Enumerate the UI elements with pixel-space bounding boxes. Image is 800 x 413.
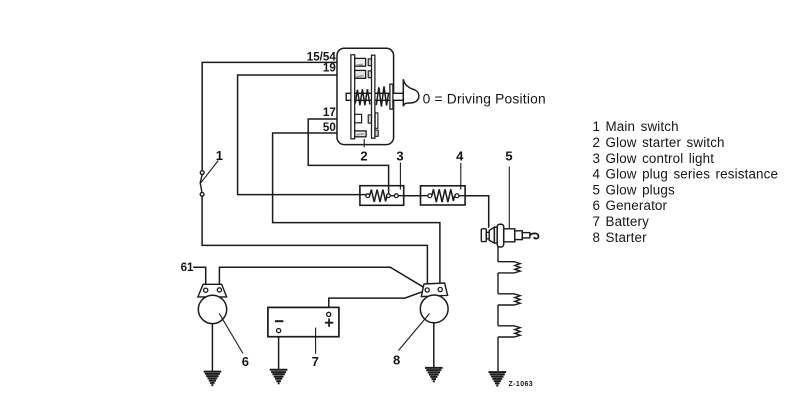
right bar contact b [368, 71, 371, 78]
svg-text:4: 4 [593, 167, 601, 182]
tick label 2 [363, 139, 365, 147]
wire 19 to glow control light [238, 75, 366, 195]
left contact bar [351, 55, 355, 139]
battery B 7 [268, 307, 339, 353]
svg-text:1: 1 [216, 148, 223, 163]
svg-text:Glow plugs: Glow plugs [606, 182, 675, 197]
glow plug heater elements chain [498, 247, 520, 371]
svg-text:1: 1 [593, 119, 601, 134]
wire battery plus to starter [329, 291, 426, 313]
spring retainer plate [390, 84, 393, 109]
wire generator to starter [219, 267, 426, 289]
wire 50 to starter right terminal [273, 133, 440, 286]
glow starter switch body [337, 48, 394, 144]
terminal 19 contact [355, 70, 366, 78]
svg-text:7: 7 [312, 354, 319, 369]
svg-text:17: 17 [323, 106, 336, 119]
wire 17 to control light junction [308, 119, 388, 193]
auxiliary bar [375, 113, 378, 128]
switch shaft [346, 93, 403, 100]
svg-text:8: 8 [593, 230, 601, 245]
ground starter [425, 368, 443, 382]
tick label 4 [460, 163, 462, 190]
wire generator to ground [211, 324, 213, 371]
wire series resistance to glow plug [465, 196, 489, 228]
svg-text:61: 61 [181, 261, 194, 274]
svg-text:8: 8 [393, 352, 400, 367]
terminal 50 contact [355, 131, 366, 137]
svg-text:Glow control light: Glow control light [606, 151, 715, 166]
svg-text:Battery: Battery [606, 214, 650, 229]
svg-text:6: 6 [242, 354, 249, 369]
ground generator [204, 372, 222, 386]
glow plug series resistance box 4 [421, 186, 466, 205]
spring left [355, 89, 370, 105]
svg-text:Generator: Generator [606, 198, 668, 213]
svg-text:50: 50 [323, 121, 336, 134]
ground glow plugs [489, 372, 507, 386]
svg-text:0 = Driving Position: 0 = Driving Position [423, 92, 546, 107]
wire battery minus to ground [278, 333, 280, 369]
glow control light box 3 [360, 186, 404, 206]
tick label 3 [399, 163, 401, 190]
right bar contact a [368, 59, 371, 66]
svg-text:5: 5 [505, 149, 512, 164]
svg-text:7: 7 [593, 214, 601, 229]
spring right [376, 86, 388, 106]
svg-text:4: 4 [456, 149, 464, 164]
svg-text:2: 2 [360, 148, 367, 163]
wire terminal 61 stub [193, 267, 206, 288]
switch knob [403, 79, 419, 106]
svg-text:Z-1063: Z-1063 [509, 381, 534, 388]
wire between control light and series resistance [404, 195, 421, 197]
generator G 6 [198, 284, 243, 353]
svg-text:5: 5 [593, 182, 601, 197]
svg-text:Starter: Starter [606, 230, 648, 245]
svg-text:Glow starter switch: Glow starter switch [606, 135, 725, 150]
svg-text:6: 6 [593, 198, 601, 213]
right bar contact d [375, 130, 378, 136]
svg-text:Main switch: Main switch [606, 119, 679, 134]
tick label 5 [508, 167, 510, 230]
svg-text:19: 19 [323, 62, 336, 75]
svg-text:Glow plug series resistance: Glow plug series resistance [606, 167, 779, 182]
terminal 15/54 contact [355, 58, 366, 66]
right contact bar [372, 55, 375, 138]
svg-text:2: 2 [593, 135, 601, 150]
svg-text:3: 3 [396, 149, 403, 164]
wire starter to ground [433, 323, 435, 367]
ground battery [270, 370, 288, 384]
right bar contact c [368, 115, 371, 123]
terminal 17 contact [355, 114, 362, 123]
main switch S1 [200, 161, 218, 197]
starter M 8 [399, 283, 449, 351]
wire main switch to starter left terminal [202, 196, 427, 286]
glow plug symbol 5 [481, 224, 538, 247]
svg-text:3: 3 [593, 151, 601, 166]
wire 15/54 to main switch [202, 62, 355, 170]
